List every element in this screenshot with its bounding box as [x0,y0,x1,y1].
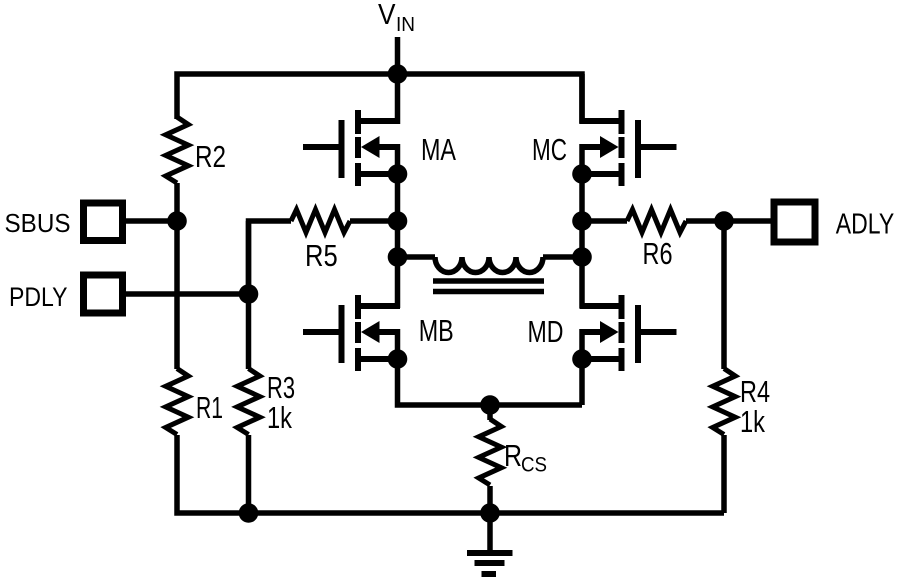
terminal SBUS box [84,203,123,241]
terminal ADLY box [774,202,815,242]
transistor MB [303,295,407,371]
svg-text:MA: MA [421,132,456,167]
svg-text:R2: R2 [195,139,226,174]
svg-text:CS: CS [521,454,547,477]
svg-text:1k: 1k [267,400,292,435]
wire left bridge column to MB drain [395,257,401,308]
transistor MC [572,110,676,186]
svg-text:MC: MC [532,132,567,167]
node A left bridge R5 junction [388,211,408,231]
wire left bridge column MA source to inductor [395,174,401,257]
wire RCS top lead [487,405,493,420]
inductor T1 core [433,281,544,292]
svg-text:R1: R1 [196,390,223,425]
resistor R5 [291,210,350,233]
svg-text:R6: R6 [643,236,673,271]
svg-text:PDLY: PDLY [9,282,68,312]
svg-text:R: R [504,438,522,473]
node ground junction [480,503,500,523]
wire R6 left lead [582,218,627,224]
node PDLY junction [239,284,259,304]
wire RCS bottom lead [487,486,493,513]
wire left bus R2 to SBUS node [174,183,180,221]
wire R4 to bottom rail [721,435,727,513]
node A inductor left junction [388,247,408,267]
wire R4 branch vertical [721,221,727,369]
svg-text:IN: IN [396,14,415,36]
svg-text:V: V [378,0,396,31]
svg-text:MD: MD [528,314,564,349]
resistor R4 [713,369,736,435]
wire R5 right lead [350,218,398,224]
wire MB source to bottom bridge [398,358,583,405]
svg-text:SBUS: SBUS [5,208,71,238]
transistor MD [572,295,676,371]
wire left bus R1 to bottom rail [177,435,724,513]
wire R5 left lead [249,221,292,294]
node R3 bottom junction [239,503,259,523]
wire PDLY lead [124,291,249,297]
terminal PDLY box [84,275,123,313]
svg-text:MB: MB [419,313,454,348]
inductor T1 winding [398,257,583,273]
wire MD source to bottom bridge [579,358,585,405]
resistor R3 [237,369,260,435]
label RCS [504,438,547,477]
svg-text:R5: R5 [305,238,338,273]
resistor R1 [166,369,189,435]
wire ADLY lead [724,218,772,224]
wire top VIN rail [177,74,582,123]
wire R6 right lead [686,218,724,224]
node VIN junction [388,64,408,84]
ground [467,553,513,574]
node ADLY junction [714,211,734,231]
svg-text:1k: 1k [740,404,765,439]
wire MC drain column [579,74,585,124]
svg-text:ADLY: ADLY [836,209,894,241]
node B R6 junction [572,211,592,231]
wire VIN stub [395,37,401,74]
wire ground stub [487,513,493,551]
wire MA drain column [395,74,401,124]
node B inductor right junction [572,247,592,267]
resistor RCS [479,419,502,485]
resistor R6 [627,210,686,233]
transistor MA [303,110,407,186]
wire R3 to bottom rail [246,435,252,513]
resistor R2 [166,117,189,183]
label VIN [378,0,415,36]
wire SBUS lead [124,218,177,224]
wire right bridge column to MD drain [579,257,585,308]
wire left bus SBUS node to R1 [174,221,180,369]
node SBUS junction [167,211,187,231]
node RCS top junction [480,395,500,415]
wire R3 branch vertical [246,221,252,369]
wire right bridge column MC source to inductor [579,174,585,257]
